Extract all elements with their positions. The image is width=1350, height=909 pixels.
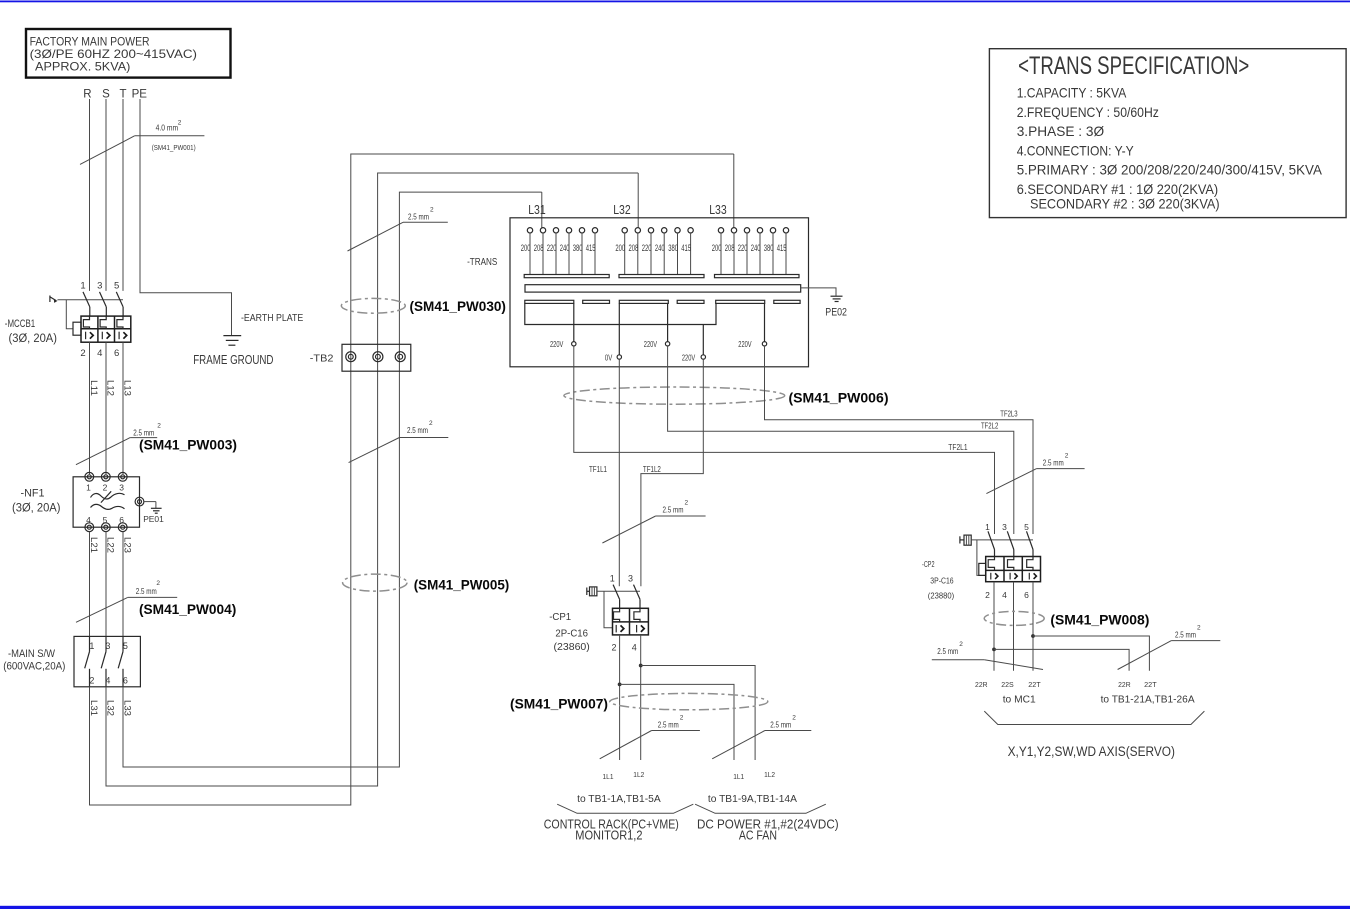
svg-text:1: 1 (610, 574, 615, 584)
svg-text:2: 2 (959, 641, 963, 648)
svg-text:-CP1: -CP1 (549, 611, 571, 623)
primary terminals group2 200-415 (615, 228, 693, 275)
svg-text:220V: 220V (682, 353, 696, 362)
svg-text:L13: L13 (122, 380, 132, 396)
svg-text:208: 208 (629, 243, 639, 253)
wire T vertical (122, 99, 124, 291)
svg-text:APPROX. 5KVA): APPROX. 5KVA) (35, 60, 130, 74)
svg-text:2: 2 (80, 348, 85, 359)
terminal block TB2 (310, 344, 411, 371)
note box FACTORY MAIN POWER (26, 29, 231, 78)
wire CP1 out 1L1 (619, 635, 621, 760)
wire branch to group2 1L2 (641, 666, 755, 761)
svg-text:200: 200 (712, 243, 722, 253)
svg-text:-NF1: -NF1 (21, 488, 45, 500)
wire L32 run to riser (106, 173, 638, 786)
svg-text:1L2: 1L2 (633, 770, 644, 779)
cable marking 2.5 mm2 at trans input (348, 206, 448, 251)
svg-text:2: 2 (157, 423, 161, 430)
wire S vertical (105, 99, 107, 291)
wire drop to trans L33 input (733, 154, 735, 228)
svg-text:4: 4 (632, 642, 637, 652)
svg-text:2: 2 (1065, 452, 1069, 459)
secondary winding bar spacer (774, 300, 800, 303)
svg-text:220V: 220V (644, 340, 658, 349)
brace control rack (557, 804, 693, 813)
noise filter NF1 (12, 472, 164, 531)
svg-text:240: 240 (655, 243, 665, 253)
svg-text:TF1L2: TF1L2 (643, 464, 661, 474)
shield ellipse (SM41_PW006) (564, 387, 785, 404)
svg-text:2.5 mm: 2.5 mm (136, 586, 157, 596)
svg-text:1: 1 (80, 281, 85, 292)
tap 220V no4 (738, 303, 766, 349)
note box TRANS SPECIFICATION (989, 49, 1346, 218)
svg-text:2: 2 (89, 676, 94, 686)
svg-text:1L1: 1L1 (733, 772, 744, 781)
svg-text:220: 220 (547, 243, 557, 253)
svg-text:2.5 mm: 2.5 mm (1175, 629, 1196, 639)
svg-text:22R: 22R (1118, 680, 1131, 689)
svg-text:2P-C16: 2P-C16 (555, 628, 588, 640)
svg-text:208: 208 (725, 243, 735, 253)
primary winding bar group3 (715, 275, 800, 278)
ground FRAME GROUND (193, 336, 273, 367)
svg-text:0V: 0V (605, 353, 613, 362)
primary winding bar group1 (524, 275, 609, 278)
svg-text:3: 3 (119, 483, 124, 493)
cable marking 2.5 mm2 to TB1-21A (1118, 624, 1221, 669)
svg-text:3P-C16: 3P-C16 (930, 575, 954, 585)
junction on 22R (992, 648, 996, 652)
svg-text:(SM41_PW004): (SM41_PW004) (139, 601, 236, 617)
svg-text:L33: L33 (122, 700, 132, 716)
svg-text:-CP2: -CP2 (922, 559, 935, 569)
breaker MCCB1 (5, 281, 131, 359)
svg-text:PE01: PE01 (143, 514, 164, 524)
svg-text:3: 3 (1002, 522, 1007, 532)
svg-text:-TB2: -TB2 (310, 354, 334, 365)
svg-text:380: 380 (573, 243, 583, 253)
svg-text:(600VAC,20A): (600VAC,20A) (3, 661, 65, 673)
svg-text:TF1L1: TF1L1 (589, 464, 607, 474)
svg-text:to TB1-9A,TB1-14A: to TB1-9A,TB1-14A (708, 793, 797, 805)
svg-text:to MC1: to MC1 (1003, 693, 1036, 705)
svg-text:4: 4 (105, 676, 110, 686)
cable marking 2.5 mm2 at CP1 input (602, 499, 705, 543)
breaker CP1 (549, 574, 648, 654)
tap 220V no3 (682, 325, 706, 363)
cable marking 2.5 mm2 (SM41_PW004) (76, 580, 236, 622)
tap 220V no2 (644, 303, 670, 349)
wire L23 (122, 532, 124, 637)
svg-text:(SM41_PW007): (SM41_PW007) (510, 695, 608, 711)
svg-text:200: 200 (615, 243, 625, 253)
wire TF1L2 (641, 359, 703, 586)
wire L21 (89, 532, 91, 637)
svg-text:5.PRIMARY : 3Ø 200/208/220/240: 5.PRIMARY : 3Ø 200/208/220/240/300/415V,… (1017, 162, 1323, 178)
svg-text:2.5 mm: 2.5 mm (407, 425, 428, 435)
secondary winding bar spacer (677, 300, 704, 303)
primary winding bar group2 (619, 275, 704, 278)
wire drop to trans L31 input (541, 192, 543, 228)
svg-text:TF2L1: TF2L1 (948, 442, 968, 452)
svg-text:(SM41_PW005): (SM41_PW005) (414, 576, 510, 592)
svg-text:S: S (102, 89, 110, 101)
svg-text:T: T (119, 89, 126, 101)
svg-text:220: 220 (642, 243, 652, 253)
svg-text:2: 2 (156, 580, 160, 587)
svg-text:L31: L31 (89, 700, 99, 716)
svg-text:5: 5 (103, 515, 108, 525)
svg-text:4.CONNECTION: Y-Y: 4.CONNECTION: Y-Y (1017, 142, 1135, 158)
svg-text:<TRANS SPECIFICATION>: <TRANS SPECIFICATION> (1018, 52, 1249, 80)
transformer TRANS (467, 203, 808, 367)
svg-text:2.5 mm: 2.5 mm (408, 211, 429, 221)
svg-text:2: 2 (103, 483, 108, 493)
svg-text:3.PHASE : 3Ø: 3.PHASE : 3Ø (1017, 123, 1105, 139)
svg-text:200: 200 (521, 243, 531, 253)
tap 220V no1 (550, 303, 576, 349)
svg-text:(SM41_PW006): (SM41_PW006) (789, 390, 889, 406)
junction on 22T (1031, 634, 1035, 638)
svg-text:-TRANS: -TRANS (467, 257, 497, 268)
svg-text:2: 2 (680, 714, 684, 721)
ground PE02 (825, 296, 847, 318)
wire TF2L3 (765, 346, 1034, 534)
wire to PE02 (801, 288, 836, 296)
svg-text:X,Y1,Y2,SW,WD AXIS(SERVO): X,Y1,Y2,SW,WD AXIS(SERVO) (1008, 744, 1175, 759)
svg-text:220V: 220V (738, 340, 752, 349)
wire CP1 out 1L2 (640, 635, 642, 760)
svg-text:L23: L23 (122, 537, 132, 553)
svg-text:1L2: 1L2 (764, 770, 775, 779)
svg-text:AC FAN: AC FAN (739, 829, 777, 843)
svg-text:2.5 mm: 2.5 mm (770, 719, 791, 729)
svg-text:-MCCB1: -MCCB1 (5, 318, 35, 330)
svg-text:415: 415 (681, 243, 691, 253)
svg-text:22R: 22R (975, 680, 988, 689)
cable marking 2.5 mm2 (SM41_PW003) (76, 423, 237, 465)
svg-text:L12: L12 (105, 380, 115, 396)
wire drop to trans L32 input (637, 173, 639, 228)
svg-text:PE02: PE02 (825, 306, 847, 318)
svg-text:2: 2 (178, 120, 182, 127)
wire branch to group2 1L1 (620, 684, 734, 760)
breaker CP2 (922, 522, 1041, 600)
brace servo axes (984, 711, 1204, 724)
svg-text:(SM41_PW030): (SM41_PW030) (410, 298, 506, 314)
svg-text:2.5 mm: 2.5 mm (937, 646, 958, 656)
wire PE to earth plate (140, 99, 232, 335)
wire TF1L1 (618, 359, 620, 586)
svg-text:6: 6 (114, 348, 119, 359)
svg-text:4: 4 (86, 515, 91, 525)
secondary interconnect wire (525, 303, 716, 324)
secondary winding bar 2 (619, 300, 668, 303)
wire CP2 out 22R (993, 582, 995, 671)
svg-text:-MAIN S/W: -MAIN S/W (8, 648, 56, 660)
svg-text:1.CAPACITY : 5KVA: 1.CAPACITY : 5KVA (1017, 85, 1127, 101)
svg-text:TF2L3: TF2L3 (1000, 409, 1017, 419)
secondary winding bar 3 (716, 300, 765, 303)
svg-text:22T: 22T (1028, 680, 1041, 689)
svg-text:380: 380 (764, 243, 774, 253)
svg-text:(23860): (23860) (554, 641, 590, 653)
svg-text:4: 4 (1002, 590, 1007, 600)
svg-text:MONITOR1,2: MONITOR1,2 (575, 829, 642, 843)
secondary winding bar spacer (583, 300, 610, 303)
svg-text:1: 1 (86, 483, 91, 493)
svg-text:4.0 mm: 4.0 mm (156, 123, 179, 133)
svg-text:4: 4 (97, 348, 102, 359)
svg-text:L31: L31 (528, 203, 546, 217)
svg-text:(23880): (23880) (928, 590, 955, 600)
svg-text:L21: L21 (89, 537, 99, 553)
svg-text:(3Ø, 20A): (3Ø, 20A) (12, 503, 61, 515)
primary terminals group1 200-415 (521, 228, 598, 275)
svg-text:2.5 mm: 2.5 mm (658, 719, 679, 729)
wire L11 (89, 342, 91, 474)
shield ellipse (SM41_PW007) (610, 693, 768, 709)
wire L12 (105, 342, 107, 474)
svg-text:L32: L32 (613, 203, 631, 217)
cable marking 2.5 mm2 dc power (712, 714, 811, 759)
svg-text:2: 2 (685, 499, 689, 506)
svg-text:(3Ø, 20A): (3Ø, 20A) (9, 333, 58, 345)
wire TF2L1 (574, 346, 995, 534)
tap 0V (605, 303, 622, 362)
wire L33 run to riser (123, 192, 542, 767)
secondary winding bar 1 (525, 300, 574, 303)
svg-text:220V: 220V (550, 340, 564, 349)
svg-text:L11: L11 (89, 380, 99, 396)
svg-text:6: 6 (1024, 590, 1029, 600)
switch MAIN S/W (3, 636, 140, 686)
svg-text:240: 240 (751, 243, 761, 253)
svg-text:6: 6 (119, 515, 124, 525)
brace dc power (695, 804, 826, 813)
svg-text:(SM41_PW008): (SM41_PW008) (1050, 611, 1149, 627)
svg-text:6: 6 (123, 676, 128, 686)
svg-text:1: 1 (89, 641, 94, 651)
svg-text:2: 2 (985, 590, 990, 600)
cable marking 2.5 mm2 to MC1 (932, 641, 1043, 670)
svg-text:2: 2 (1197, 624, 1201, 631)
svg-text:2: 2 (429, 420, 433, 427)
svg-text:R: R (83, 89, 91, 101)
svg-text:220: 220 (738, 243, 748, 253)
cable marking 2.5 mm2 control rack (600, 714, 700, 759)
svg-text:5: 5 (114, 281, 119, 292)
svg-text:5: 5 (1024, 522, 1029, 532)
junction on 1L1 (618, 683, 622, 687)
wire L22 (105, 532, 107, 637)
svg-text:22T: 22T (1144, 680, 1157, 689)
svg-text:SECONDARY #2 : 3Ø 220(3KVA): SECONDARY #2 : 3Ø 220(3KVA) (1030, 195, 1220, 211)
svg-text:to TB1-21A,TB1-26A: to TB1-21A,TB1-26A (1101, 693, 1195, 705)
svg-text:2.5 mm: 2.5 mm (663, 504, 684, 514)
wire L13 (122, 342, 124, 474)
svg-text:TF2L2: TF2L2 (981, 421, 998, 431)
svg-text:3: 3 (628, 574, 633, 584)
svg-text:FRAME GROUND: FRAME GROUND (193, 352, 273, 367)
shield ellipse (SM41_PW030) (341, 298, 405, 313)
svg-text:2: 2 (611, 642, 616, 652)
svg-text:2: 2 (430, 206, 434, 213)
svg-text:2.FREQUENCY : 50/60Hz: 2.FREQUENCY : 50/60Hz (1017, 104, 1159, 120)
svg-text:L32: L32 (105, 700, 115, 716)
wire branch 22T to TB1 (1033, 636, 1149, 671)
svg-text:240: 240 (560, 243, 570, 253)
svg-text:(SM41_PW003): (SM41_PW003) (139, 437, 237, 453)
cable marking 2.5 mm2 at CP2 input (986, 452, 1084, 493)
svg-text:1: 1 (985, 522, 990, 532)
svg-text:22S: 22S (1001, 680, 1014, 689)
svg-text:5: 5 (123, 641, 128, 651)
svg-text:415: 415 (586, 243, 596, 253)
svg-text:PE: PE (132, 89, 148, 101)
svg-text:415: 415 (777, 243, 787, 253)
transformer core (525, 285, 801, 292)
cable marking 4.0 mm2 (SM41_PW001) (80, 120, 204, 165)
svg-text:2: 2 (792, 714, 796, 721)
svg-text:to TB1-1A,TB1-5A: to TB1-1A,TB1-5A (577, 793, 661, 805)
shield ellipse (SM41_PW008) (984, 611, 1044, 625)
wire CP2 out 22S (1013, 582, 1015, 671)
svg-text:2.5 mm: 2.5 mm (1043, 457, 1064, 467)
svg-text:1L1: 1L1 (603, 772, 614, 781)
primary terminals group3 200-415 (712, 228, 789, 275)
svg-text:(SM41_PW001): (SM41_PW001) (152, 143, 196, 152)
junction on 1L2 (639, 664, 643, 668)
wire CP2 out 22T (1032, 582, 1034, 671)
svg-text:3: 3 (97, 281, 102, 292)
svg-text:380: 380 (668, 243, 678, 253)
wire R vertical (89, 99, 91, 291)
svg-text:L33: L33 (709, 203, 727, 217)
wire TF2L2 (668, 346, 1014, 534)
cable marking 2.5 mm2 below TB2 (349, 420, 449, 462)
svg-text:-EARTH PLATE: -EARTH PLATE (241, 312, 303, 324)
shield ellipse (SM41_PW005) (343, 574, 407, 591)
svg-text:208: 208 (534, 243, 544, 253)
wire branch 22R to TB1 (994, 649, 1129, 670)
wire L31 run to riser (90, 154, 734, 805)
svg-text:L22: L22 (105, 537, 115, 553)
